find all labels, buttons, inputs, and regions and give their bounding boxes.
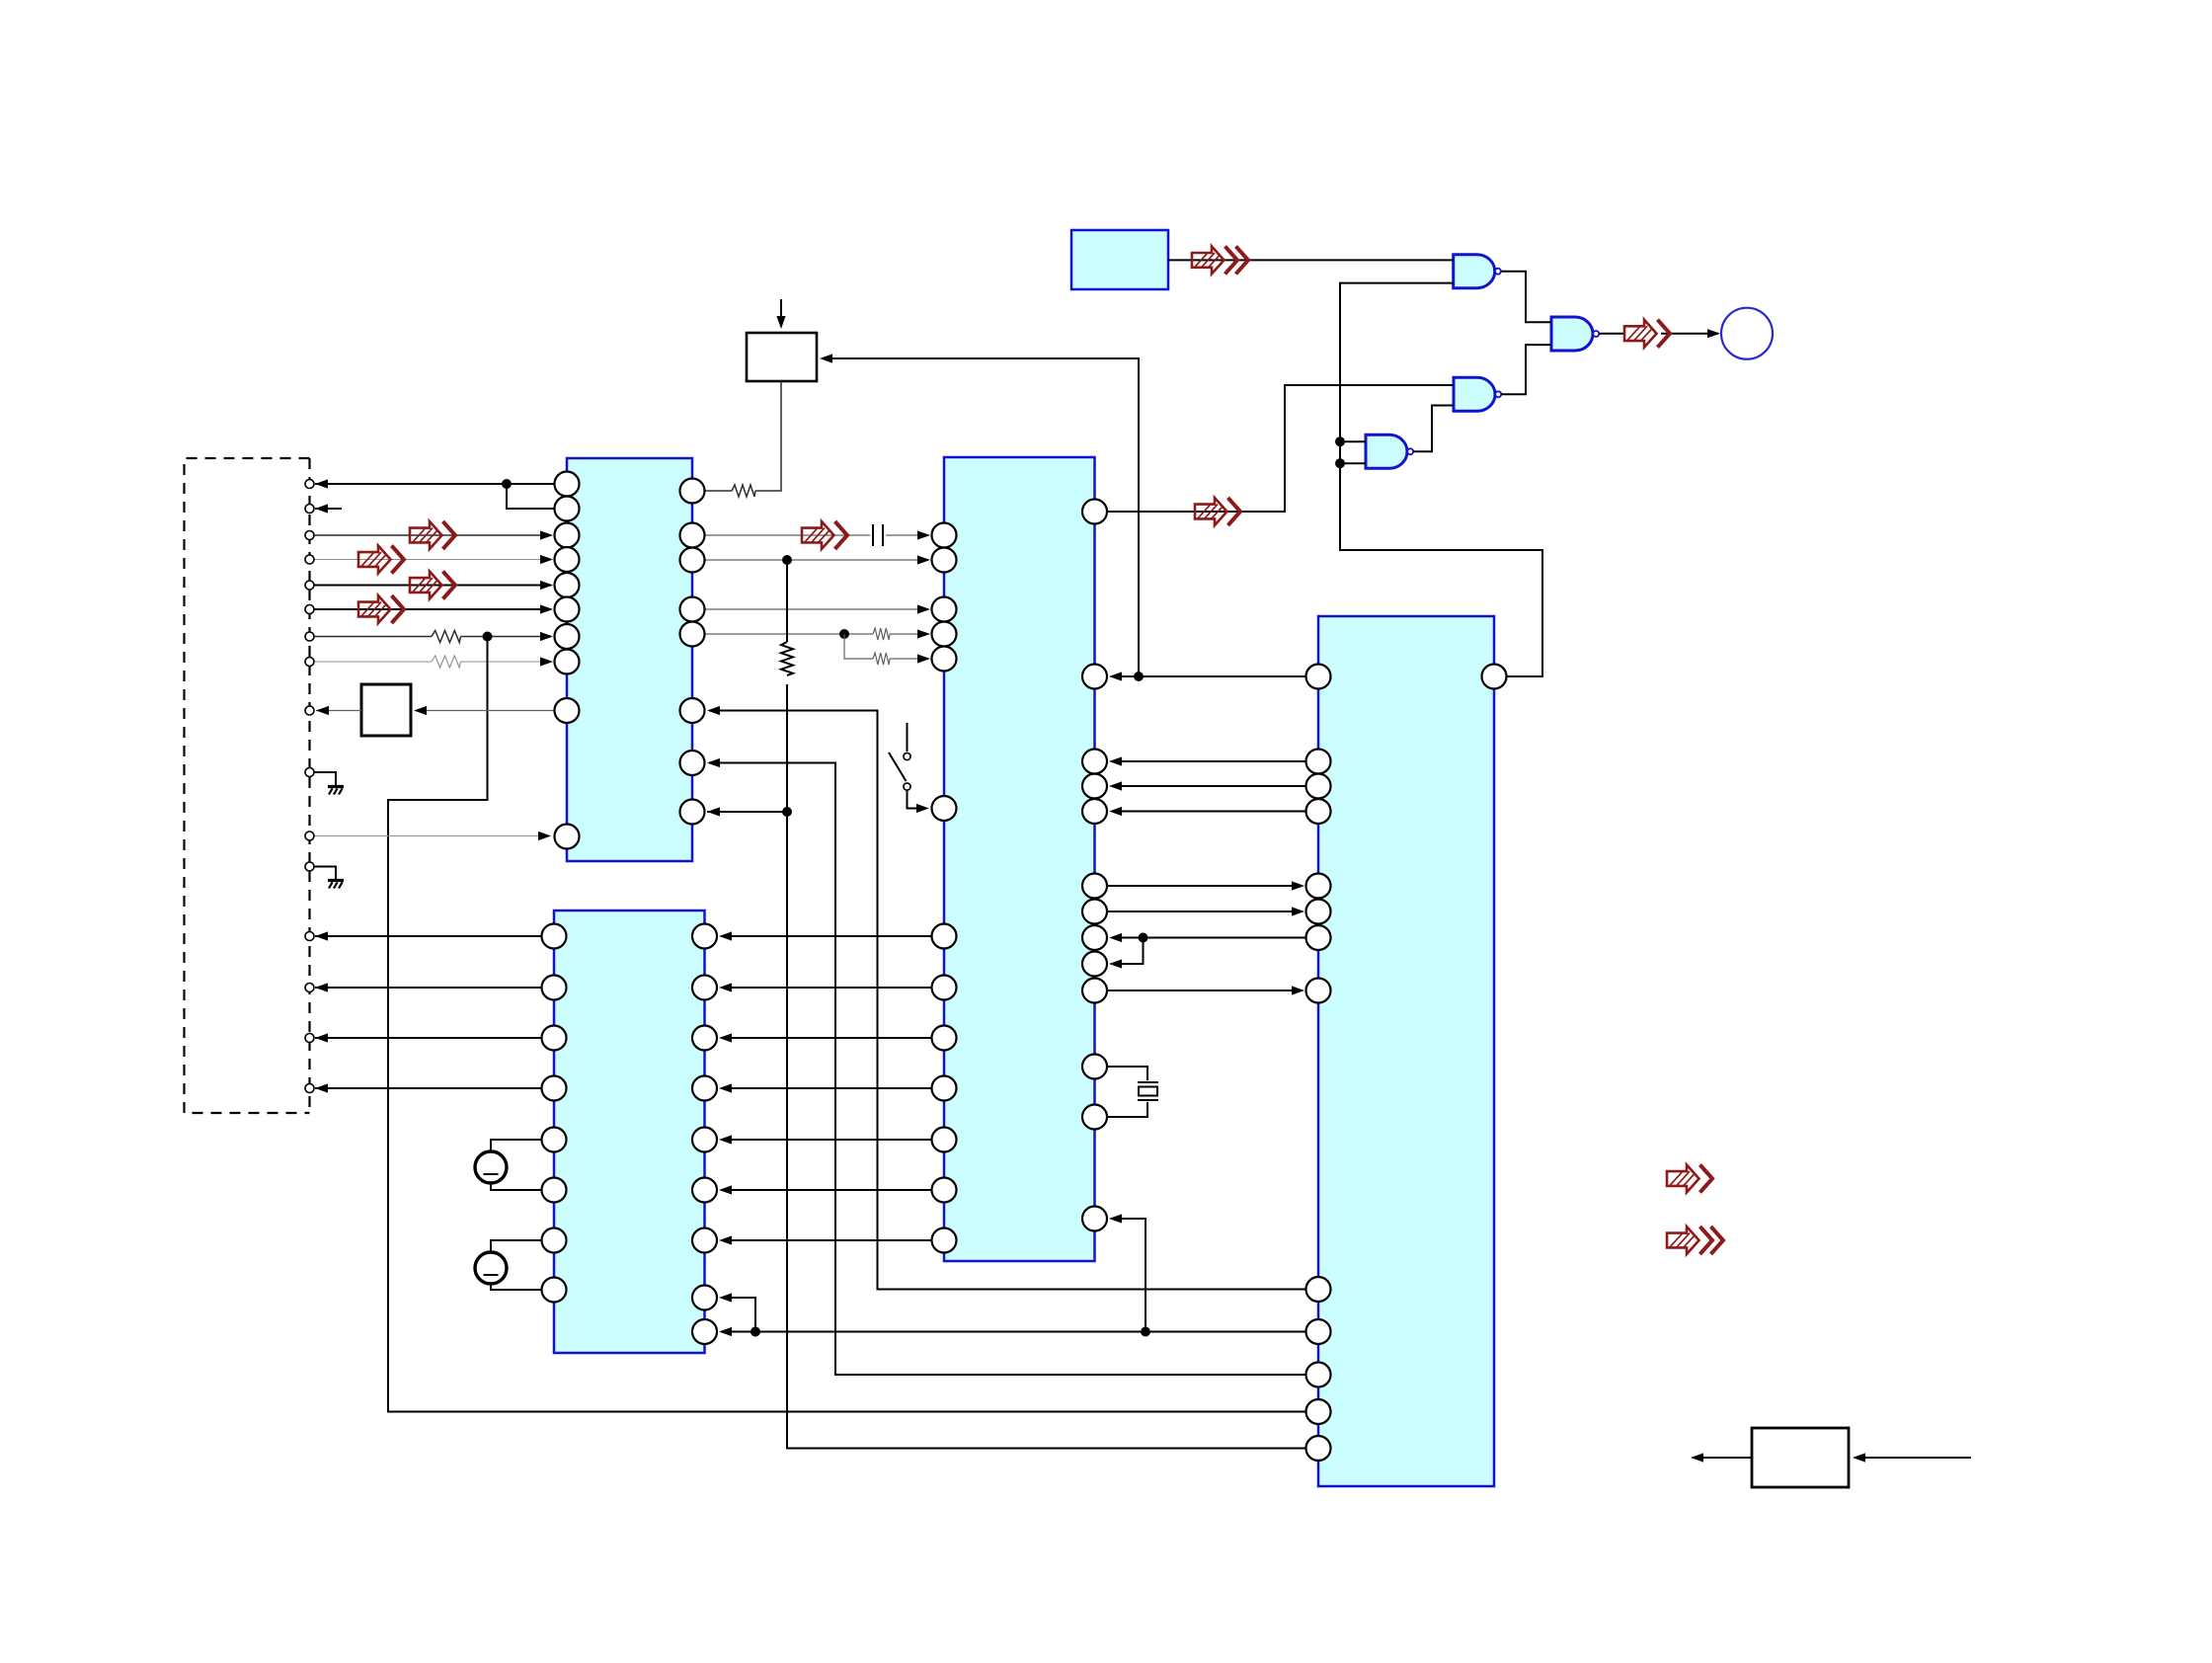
wire long net from row7 junction down-left-down to U4 (388, 637, 1306, 1412)
resistor R4 (873, 628, 890, 640)
wire net row 685 U3/U4 with junction (1112, 675, 1306, 677)
arrowhead into U1 row3 (540, 530, 553, 539)
minus mark B1 (484, 1173, 499, 1175)
wire U3 row 518 up to NAND U5C input (1107, 385, 1454, 512)
wire net U4 row 1392 up x846 to U1 row 772 (709, 763, 1306, 1376)
junction dot row 642 (839, 629, 849, 639)
signal arrow row 542 mid (802, 521, 847, 549)
wire U5D output to U5C input (1413, 406, 1454, 452)
arrowheads into U4 rows 897,923 (1292, 881, 1304, 890)
block A1 (shaded box, top) (1071, 230, 1168, 289)
wire U1 pin to box A3 (416, 710, 555, 712)
wire branch row 642 to row 667 through R5 (844, 634, 928, 659)
wire S1 to U3 row 818 (908, 790, 927, 809)
arrowhead into U1 row4 (540, 555, 553, 564)
IC block U4 (1318, 616, 1494, 1486)
arrowhead into U3 row 617 (917, 604, 930, 613)
CN1 pins (305, 480, 314, 489)
junction dot x765 row 1348 (750, 1327, 760, 1337)
arrowhead into U1 row6 (540, 604, 553, 613)
wire U1 row 567 to U3 (705, 559, 929, 561)
wire CN1 row16 to U2 (315, 1087, 542, 1089)
arrowhead into U3 row 1234 (1109, 1214, 1122, 1223)
arrowhead into U1 row5 (540, 581, 553, 590)
switch S1 contact a (904, 752, 910, 759)
signal arrow row3 (410, 521, 455, 549)
wire CN1 row13 to U2 (315, 935, 542, 937)
crystal X1 (1138, 1082, 1158, 1100)
junction dot row 567 (782, 555, 792, 565)
arrowhead into U1 row 772 (707, 758, 720, 767)
box A3 (left) (361, 684, 411, 736)
NAND gate U5D (1366, 435, 1413, 468)
U2 left pins (542, 924, 567, 949)
wires U3 rows 897,923 to U4 (1107, 886, 1302, 911)
wire U2 pin to source B1 (491, 1140, 542, 1151)
arrowhead into CN1 row16 (315, 1083, 328, 1092)
box A4 (bottom right) (1752, 1428, 1849, 1487)
resistor R1 (432, 631, 460, 643)
junction dot x797 row 822 (782, 807, 792, 817)
wire from x797 junction into U1 right row 822 (707, 811, 787, 813)
wire B2 to U2 pin (491, 1284, 542, 1290)
wire CN1 row6 to U1 (314, 608, 551, 610)
switch S1 lever (889, 752, 907, 781)
junction dot row1 (502, 479, 512, 489)
signal arrow row6 (358, 595, 404, 623)
wire CN1 row15 to U2 (315, 1037, 542, 1039)
IC block U3 (944, 457, 1095, 1261)
wire vertical net x797 with resistor R6 down to U4 row 1466 (787, 560, 1306, 1449)
signal arrow floating 1 (1667, 1165, 1712, 1193)
arrowhead into CN1 row14 (315, 983, 328, 991)
wire U5A output to U5B input (1501, 272, 1551, 323)
arrowhead into CN1 row13 (315, 931, 328, 940)
arrowhead into U1 row11 (538, 831, 551, 840)
wire crystal X1 to U3 row 1131 (1107, 1102, 1147, 1117)
wire CN1 row8 to U1 through R2 (314, 661, 551, 663)
arrowhead into A3 right edge (414, 706, 427, 715)
U3 left pins (932, 523, 957, 548)
arrowhead into U3 row 667 (917, 654, 930, 663)
wires U4 rows 771-821 to U3 (1112, 761, 1306, 812)
NAND gate U5B (1551, 317, 1599, 351)
arrowhead into U3 row 976 (1109, 959, 1122, 968)
arrowhead into A2 right (820, 354, 832, 362)
NAND gate U5C (1454, 377, 1501, 411)
wire U1 right row 497 through R3 to A2 bottom (705, 381, 782, 491)
wire U5C output to U5B input (1501, 345, 1551, 394)
voltage source B2 (475, 1252, 507, 1284)
arrowhead into CN1 row2 (315, 504, 328, 513)
arrowhead into U3 row 818 (916, 804, 929, 813)
wire CN1 row7 to U1 through R1 (314, 636, 551, 638)
signal arrow row5 (410, 572, 455, 599)
wire U1 row 642 through R4 to U3 (705, 633, 929, 635)
arrowhead into U3 row 685 (1109, 672, 1122, 680)
signal arrow row 518 (1195, 498, 1240, 525)
arrowhead A4 left wire (1691, 1453, 1703, 1462)
junction dot U5D input a (1335, 436, 1345, 446)
arrowhead into U3 row 542 (917, 530, 930, 539)
junction dot U5D input b (1335, 458, 1345, 468)
resistor R5 (873, 653, 890, 665)
arrowhead into U3 row 567 (917, 555, 930, 564)
wire CN1 row14 to U2 (315, 987, 542, 989)
resistor R3 (732, 485, 755, 497)
arrowhead into CN1 row15 (315, 1033, 328, 1042)
output terminal circle J1 (1721, 308, 1773, 359)
U4 right pin (1482, 665, 1507, 689)
wire U2 pin to source B2 (491, 1240, 542, 1252)
arrowhead into A4 right (1853, 1453, 1865, 1462)
wire U3 row 1080 to crystal X1 (1107, 1067, 1147, 1080)
arrowhead into U3 row 642 (917, 629, 930, 638)
junction dot row 685 (1134, 672, 1144, 681)
wire A3 to CN1 row9 (316, 710, 361, 712)
IC block U1 (567, 458, 692, 861)
wire stub CN1 row2 (315, 508, 342, 510)
U4 left pins (1306, 665, 1331, 689)
wire CN1 row4 to U1 (314, 559, 551, 561)
U3 right pins (1082, 500, 1107, 524)
wire U3 row 1003 to U4 (1107, 990, 1302, 991)
wire CN1 row3 to U1 (314, 534, 551, 536)
wire U5B output to terminal J1 (1599, 333, 1718, 335)
U1 right pins (680, 479, 705, 504)
connector CN1 (dashed enclosure) (185, 458, 310, 1113)
wire net row 949 from U4 with branch to U3 row 976 (1112, 938, 1306, 965)
arrowhead into U3 row 949 (1109, 933, 1122, 942)
box A2 (top middle) (747, 333, 817, 381)
arrow stub into A2 top (780, 299, 782, 326)
signal arrow after A1 (1192, 246, 1248, 274)
wire stubs into U5D inputs (1340, 441, 1366, 463)
NAND gate U5A (1454, 255, 1501, 288)
signal arrow floating 2 (1667, 1227, 1723, 1254)
switch S1 contact b (904, 783, 910, 790)
wire into box A4 right (1855, 1457, 1971, 1459)
arrowhead into U4 row 1003 (1292, 986, 1304, 994)
wire B1 to U2 pin (491, 1183, 542, 1190)
arrowhead into A2 top (776, 316, 785, 329)
voltage source B1 (475, 1151, 507, 1183)
wires U3 left rows 948-1256 to U2 right pins (722, 936, 932, 1240)
wire net U4 row 1305 up x888 to U1 row 719 (709, 711, 1306, 1290)
arrowheads into U3 rows 771-821 (1109, 756, 1122, 765)
signal arrow at U5B output (1624, 320, 1670, 348)
arrowhead into U2 row 1348 (719, 1327, 732, 1336)
wire C1 to U3 row 542 (886, 534, 928, 536)
wire U1 row 617 to U3 (705, 608, 929, 610)
arrowhead into U1 row7 (540, 632, 553, 641)
switch S1 stub (907, 723, 908, 752)
U1 left pins (555, 472, 580, 497)
arrowhead into J1 (1707, 329, 1720, 338)
wire U1 row 542 to capacitor C1 (705, 534, 871, 536)
signal arrow row4 (358, 546, 404, 574)
ground 1 (328, 787, 344, 795)
junction dot row7 (483, 632, 493, 642)
wire U4 right pin via x1562 to NAND tie line (1340, 283, 1542, 676)
arrowhead into U2 row 1314 (719, 1293, 732, 1302)
U2 right pins (692, 924, 717, 949)
wire from node at x1153 into A2 right edge (822, 358, 1139, 676)
arrowhead into U1 row 822 (707, 807, 720, 816)
arrowhead into CN1 row1 (315, 479, 328, 488)
wire CN1 row5 to U1 (314, 585, 551, 587)
ground 2 (328, 881, 344, 889)
wire CN1 gnd stub 2 (314, 867, 336, 880)
IC block U2 (554, 911, 705, 1353)
resistor R6 (vertical) (781, 642, 793, 675)
wire CN1 row11 to U1 bottom pin (314, 835, 549, 837)
junction dot row 949 (1139, 933, 1148, 943)
junction dot x1160 row 1348 (1141, 1327, 1150, 1337)
wire A1 output to NAND U5A input (1168, 259, 1454, 261)
wire CN1 gnd stub 1 (314, 772, 336, 785)
minus mark B2 (484, 1274, 499, 1276)
arrowheads into U2 right rows 948-1256 (719, 931, 732, 940)
arrowhead into U1 row8 (540, 657, 553, 666)
wire net U4 row 1348 to U2 with branches (722, 1219, 1306, 1332)
wire net row1 to U1 pin (with junction) (315, 484, 555, 509)
resistor R2 (432, 656, 460, 668)
arrowhead into CN1 row9 (316, 706, 329, 715)
arrowhead into U1 row 719 (707, 706, 720, 715)
capacitor C1 (873, 524, 883, 546)
wire out of box A4 left (1693, 1457, 1752, 1459)
